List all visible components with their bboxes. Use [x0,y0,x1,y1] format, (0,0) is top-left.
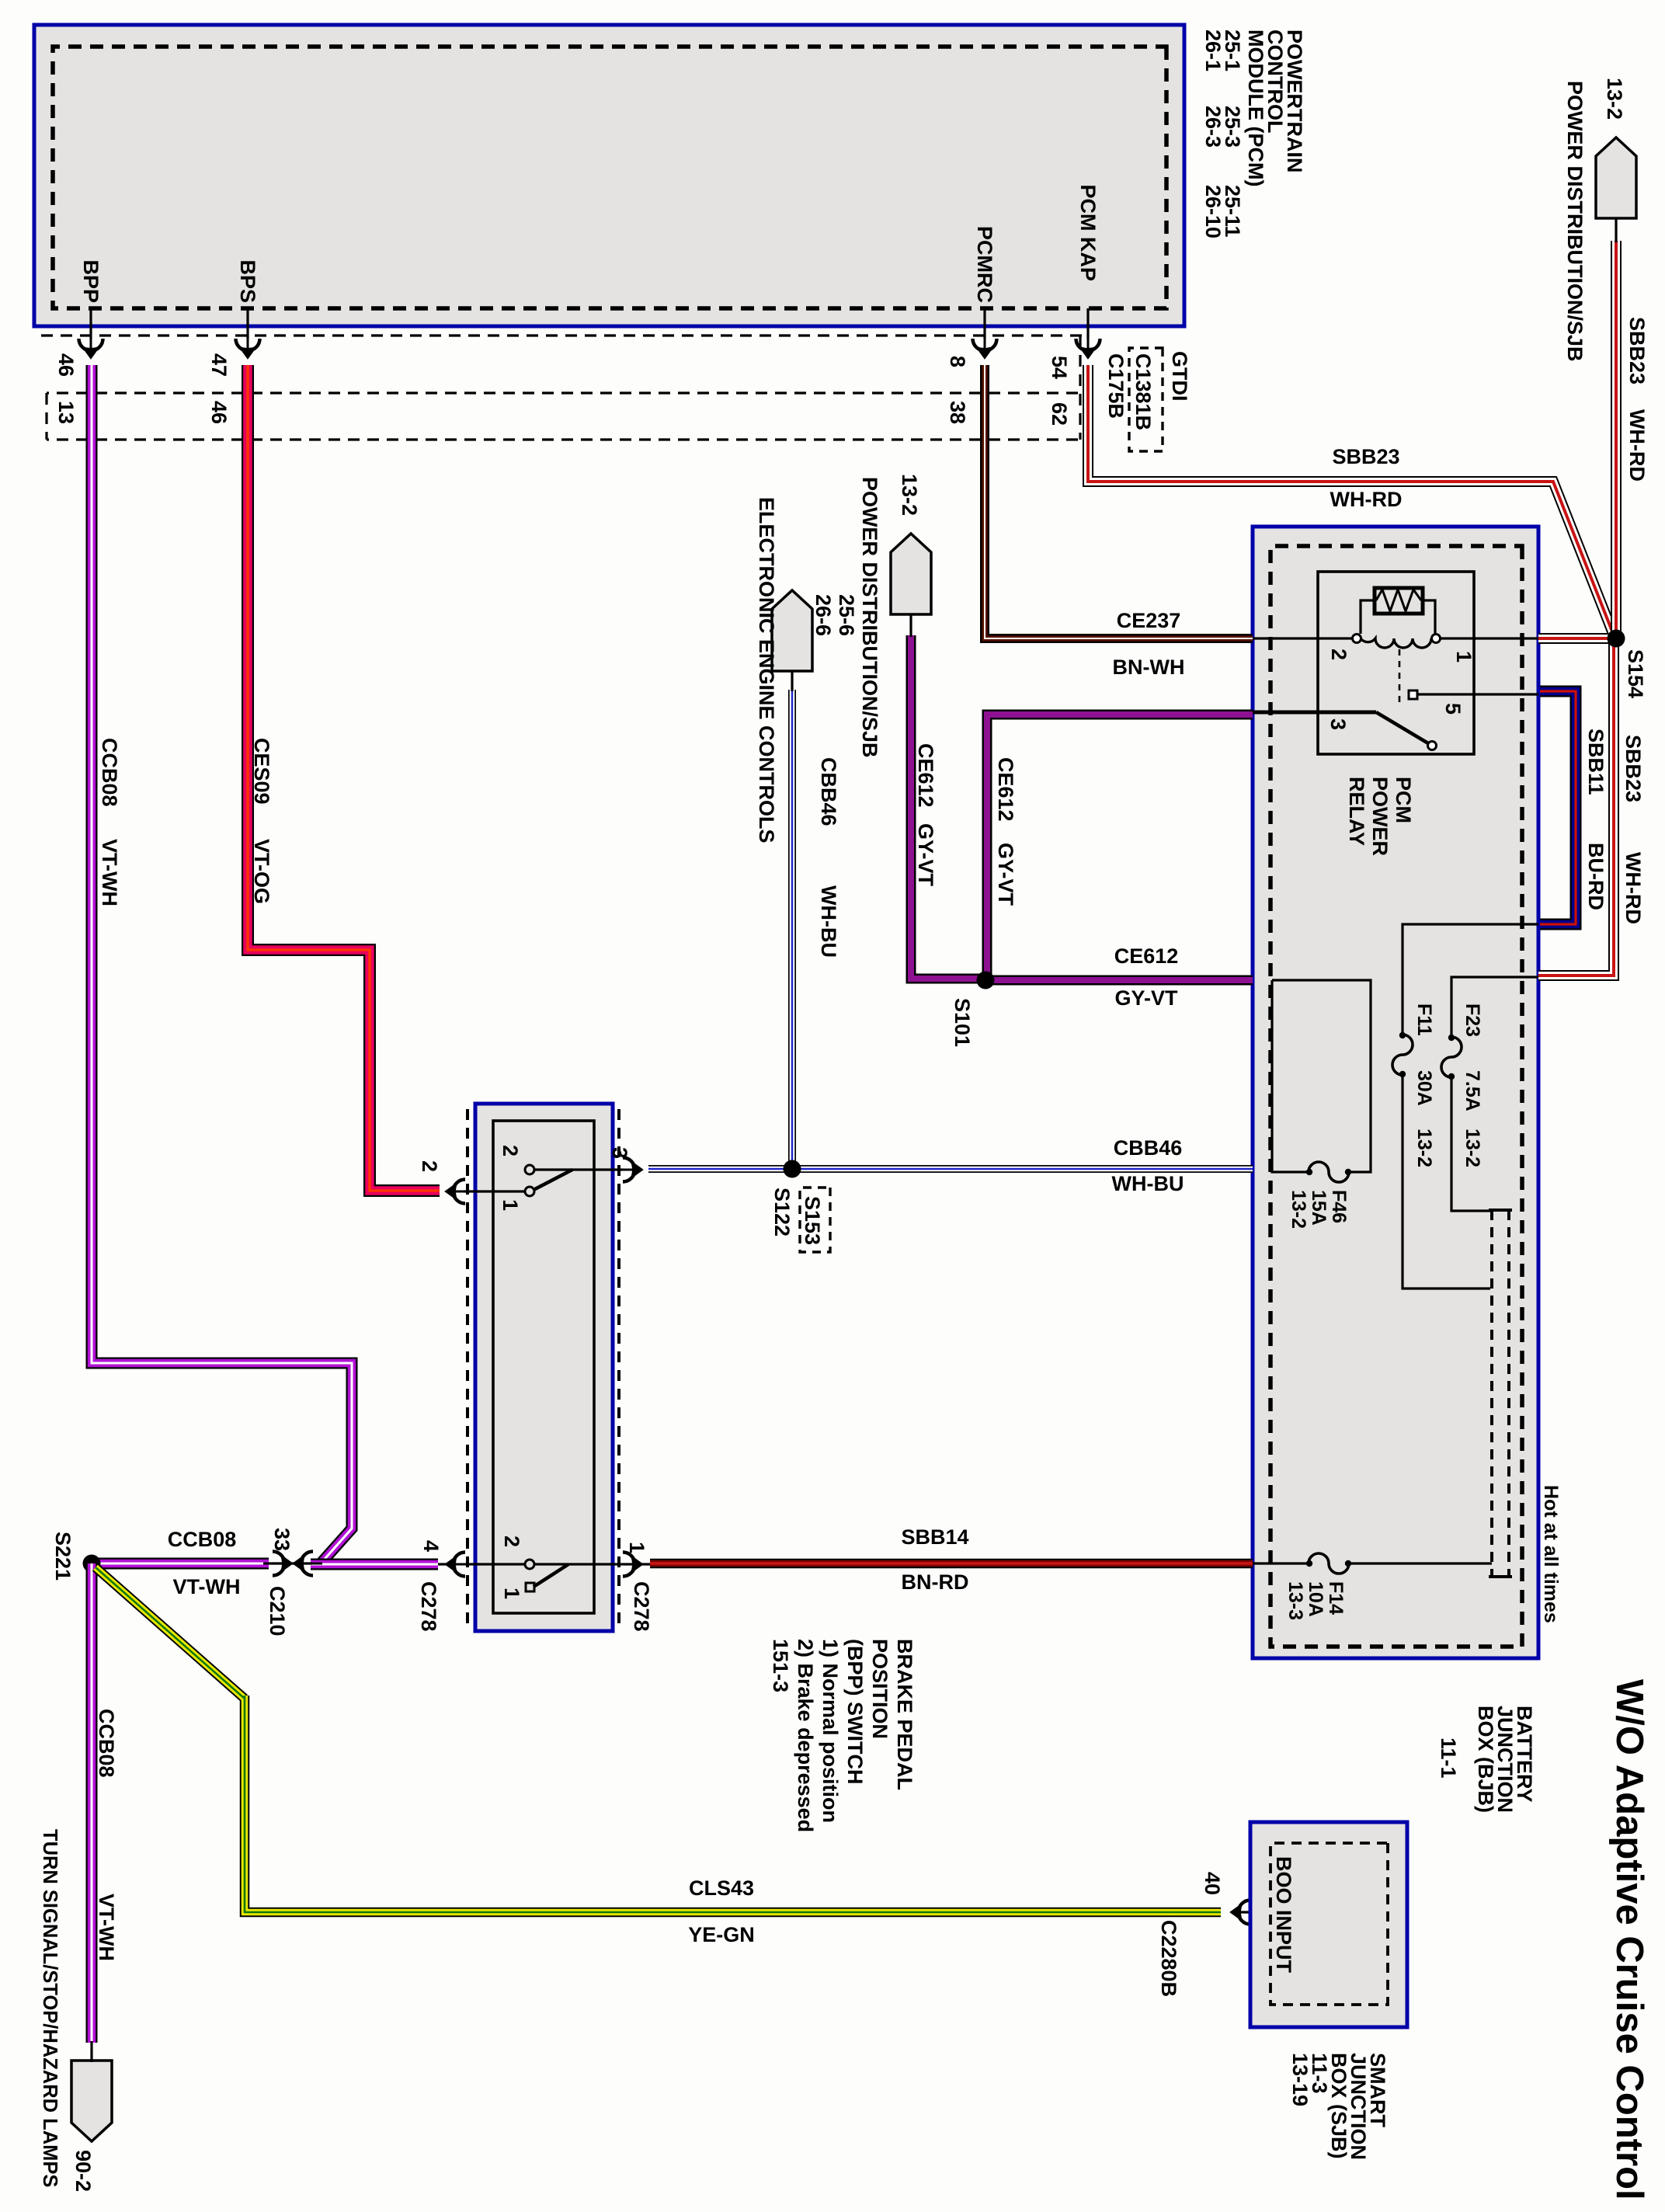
wire CCB08 pin4 segment [318,1559,438,1570]
svg-text:CE612: CE612 [914,743,937,808]
relay switch contact circle [1428,742,1437,750]
svg-text:F46: F46 [1328,1190,1350,1223]
svg-text:SBB11: SBB11 [1584,729,1608,795]
svg-text:10A: 10A [1305,1581,1326,1617]
wire CLS43 YE-GN [96,1567,1221,1912]
svg-text:47: 47 [207,353,231,377]
pin PCMRC connector arrow [973,329,997,359]
svg-text:2: 2 [1327,649,1350,660]
svg-text:BPP: BPP [79,259,103,303]
coil terminal pin 1 [1432,635,1441,643]
GTDI connector callout box [1129,348,1163,451]
svg-text:TURN SIGNAL/STOP/HAZARD LAMPS: TURN SIGNAL/STOP/HAZARD LAMPS [39,1829,61,2187]
svg-text:WH-RD: WH-RD [1625,409,1649,482]
off page arrow POWER DISTRIBUTION/SJB 2 [891,534,931,614]
C210 connector pair [269,1562,312,1564]
svg-text:13-2: 13-2 [1462,1129,1483,1167]
off page arrow ELECTRONIC ENGINE CONTROLS [772,590,812,671]
svg-text:26-3: 26-3 [1201,106,1225,148]
svg-text:90-2: 90-2 [71,2150,95,2192]
junction S221 [83,1555,101,1573]
svg-text:CCB08: CCB08 [168,1528,237,1551]
svg-text:WH-RD: WH-RD [1622,852,1645,924]
svg-text:1) Normal position: 1) Normal position [819,1639,842,1823]
right switch through line [475,1563,613,1565]
svg-text:YE-GN: YE-GN [688,1923,755,1946]
svg-text:33: 33 [270,1528,294,1551]
svg-text:15A: 15A [1308,1190,1330,1226]
svg-text:C2280B: C2280B [1157,1920,1180,1997]
resistor zigzag [1376,590,1421,611]
pin PCM KAP connector arrow [1076,329,1100,359]
svg-text:CCB08: CCB08 [95,1709,118,1778]
svg-text:ELECTRONIC ENGINE CONTROLS: ELECTRONIC ENGINE CONTROLS [755,497,778,843]
pin PCM KAP stub [1086,308,1089,339]
svg-text:CBB46: CBB46 [817,757,840,826]
svg-text:C278: C278 [417,1581,440,1632]
svg-text:(BPP) SWITCH: (BPP) SWITCH [843,1639,867,1784]
svg-text:PCMRC: PCMRC [973,226,996,303]
svg-text:W/O Adaptive Cruise Control: W/O Adaptive Cruise Control [1608,1679,1650,2200]
svg-text:F14: F14 [1325,1581,1347,1615]
svg-text:F11: F11 [1413,1003,1435,1036]
wire SBB23 from off-page arrow to S154 [1611,241,1622,638]
svg-text:SBB14: SBB14 [901,1525,968,1549]
svg-text:13-2: 13-2 [1603,78,1626,120]
PCM (Powertrain Control Module) box [34,25,1184,326]
svg-text:13: 13 [54,401,78,424]
svg-text:BRAKE PEDAL: BRAKE PEDAL [893,1639,916,1790]
svg-text:WH-BU: WH-BU [1112,1172,1184,1195]
pin 4 stub + arrow bottom right [465,1563,475,1565]
svg-text:151-3: 151-3 [769,1639,792,1692]
Smart Junction Box [1250,1822,1407,2027]
bus end caps [1489,1209,1512,1212]
pin BPS connector arrow [236,329,260,359]
svg-text:11-1: 11-1 [1437,1737,1460,1779]
svg-text:13-2: 13-2 [1413,1129,1435,1167]
wire SBB23 WH-RD from PCM KAP: riser and diagonal to S154 [1088,365,1615,976]
svg-text:46: 46 [207,401,231,424]
svg-text:PCM: PCM [1392,777,1415,823]
svg-text:BN-RD: BN-RD [902,1570,969,1594]
wire CCB08 VT-WH from BPP [92,365,352,1564]
fuse F46 15A [1306,1162,1351,1182]
pin4 stub from wire [438,1563,454,1565]
svg-text:8: 8 [946,356,969,367]
svg-text:CE237: CE237 [1117,609,1181,632]
svg-text:F23: F23 [1462,1003,1483,1037]
inner black rect [493,1121,594,1613]
svg-text:VT-WH: VT-WH [98,839,121,906]
svg-text:3: 3 [608,1147,631,1159]
left switch contact 1 [525,1187,534,1196]
relay pin2 line to CE237 entry [1253,637,1352,639]
wire stub EEC arrow [791,671,793,691]
wire CCB08 from C210 to S221 [92,1558,269,1570]
left switch line to pin2 [475,1190,525,1192]
svg-text:GY-VT: GY-VT [1114,986,1178,1010]
wire stub arrow1 [1615,218,1617,242]
svg-text:POSITION: POSITION [868,1639,892,1739]
relay switch pin3 line [1253,711,1376,715]
svg-text:3: 3 [1326,718,1350,730]
svg-text:13-19: 13-19 [1288,2053,1312,2106]
svg-text:S221: S221 [51,1532,75,1581]
svg-text:40: 40 [1201,1872,1224,1895]
off page arrow POWER DISTRIBUTION/SJB top [1596,137,1636,218]
svg-text:RELAY: RELAY [1345,777,1368,846]
svg-text:26-6: 26-6 [812,594,835,636]
svg-text:GTDI: GTDI [1168,351,1191,402]
svg-text:CE612: CE612 [1114,944,1179,968]
svg-text:CLS43: CLS43 [689,1876,754,1900]
svg-text:1: 1 [625,1542,648,1553]
relay pin5 to SBB11 line [1417,693,1538,695]
svg-text:GY-VT: GY-VT [994,843,1017,906]
pin1 stub to SBB14 [623,1563,650,1565]
wire SBB14 BN-RD [650,1559,1253,1569]
F23 out to bus [1451,1077,1490,1211]
relay pin 5 terminal [1409,690,1417,699]
pin PCMRC stub [983,308,985,339]
wire CE237 BN-WH [985,365,1253,638]
junction S101 [977,972,995,989]
svg-text:C210: C210 [266,1586,289,1636]
pin BPP stub [89,308,92,339]
svg-text:MODULE (PCM): MODULE (PCM) [1244,30,1267,186]
connector dashed band C1381B line [34,334,1082,336]
svg-text:WH-RD: WH-RD [1330,488,1403,511]
svg-text:30A: 30A [1413,1070,1435,1106]
Brake Pedal Position switch box [475,1104,613,1631]
svg-text:1: 1 [1452,651,1476,663]
left switch contact 2 [525,1165,534,1174]
svg-text:BN-WH: BN-WH [1113,656,1185,679]
svg-text:2) Brake depressed: 2) Brake depressed [794,1639,817,1832]
svg-text:46: 46 [54,353,78,377]
left switch arm [534,1170,572,1190]
junction S154 [1608,630,1625,648]
hot bus dashed pair [1507,1210,1510,1577]
SBB11 inside feed to F11 [1403,924,1538,1035]
svg-text:38: 38 [946,401,969,424]
SJB inner dashed [1270,1843,1388,2005]
wire CBB46 WH-BU vertical main [648,1165,1253,1173]
svg-text:S153: S153 [801,1196,824,1245]
svg-text:25-6: 25-6 [835,594,858,636]
svg-text:4: 4 [419,1540,443,1552]
svg-text:1: 1 [500,1588,523,1599]
svg-text:13-2: 13-2 [898,474,921,516]
off page arrow turn signal [71,2061,112,2141]
svg-text:2: 2 [418,1160,441,1172]
svg-text:BOX (BJB): BOX (BJB) [1474,1706,1497,1813]
svg-text:Hot at all times: Hot at all times [1540,1485,1562,1623]
dashed S153 box [800,1188,830,1252]
relay box [1318,572,1474,754]
SBB23 inside feed to F23 [1451,977,1538,1037]
svg-text:POWER: POWER [1368,777,1392,856]
svg-text:5: 5 [1441,703,1465,715]
coil terminal pin 2 [1353,635,1361,643]
PCM inner dashed border [53,47,1166,308]
svg-text:S101: S101 [951,998,974,1047]
svg-text:VT-OG: VT-OG [250,839,273,904]
svg-text:VT-WH: VT-WH [95,1894,118,1961]
pin 3 stub + arrow top left [613,1168,623,1170]
svg-text:13-2: 13-2 [1288,1190,1309,1229]
junction S122 [784,1160,801,1178]
svg-text:SBB23: SBB23 [1625,317,1649,384]
svg-text:62: 62 [1048,402,1071,426]
svg-text:C1381B: C1381B [1131,353,1155,430]
relay pin1 to S154 line inside BJB [1440,637,1538,639]
fuse F11 30A [1392,1032,1413,1077]
svg-text:BU-RD: BU-RD [1584,843,1608,910]
SBB14 inside feed to F14 [1253,1562,1309,1564]
svg-text:POWER DISTRIBUTION/SJB: POWER DISTRIBUTION/SJB [1563,81,1587,362]
Battery Junction Box (BJB) [1253,527,1538,1658]
wire stub turn-signal arrow [90,2041,92,2062]
svg-text:BOO INPUT: BOO INPUT [1272,1856,1295,1974]
svg-text:7.5A: 7.5A [1462,1070,1483,1111]
svg-text:PCM KAP: PCM KAP [1076,184,1100,281]
svg-text:54: 54 [1048,356,1071,379]
svg-text:2: 2 [500,1536,523,1547]
svg-text:S122: S122 [770,1188,794,1236]
svg-text:POWER DISTRIBUTION/SJB: POWER DISTRIBUTION/SJB [858,477,881,758]
svg-text:2: 2 [499,1145,522,1156]
arrow to SJB pin 40 [1230,1901,1260,1925]
resistor connect wires [1361,600,1435,634]
fuse F23 7.5A [1441,1035,1462,1080]
F46 rect bus loop [1272,980,1371,1172]
svg-text:CE612: CE612 [994,757,1017,822]
svg-text:GY-VT: GY-VT [914,823,937,887]
svg-text:CBB46: CBB46 [1114,1136,1183,1160]
pin BPS stub [246,308,249,339]
F14 out to bus [1349,1562,1492,1564]
pin 2 stub + arrow bottom left [464,1190,475,1192]
svg-text:26-10: 26-10 [1201,185,1225,238]
relay coil [1361,638,1431,648]
svg-text:VT-WH: VT-WH [173,1575,241,1598]
svg-text:SBB23: SBB23 [1332,445,1399,468]
svg-text:S154: S154 [1624,649,1647,698]
relay resistor box [1375,588,1423,614]
svg-text:CCB08: CCB08 [98,738,121,807]
wire CCB08 from S221 to turn signal arrow [86,1563,98,2043]
pin 1 stub + arrow top right [613,1563,623,1565]
svg-text:BPS: BPS [236,259,259,303]
BJB inner dashed border [1270,546,1522,1647]
relay switch arm [1376,712,1428,743]
right switch arm [534,1564,568,1587]
right switch square contact 1 [526,1583,534,1591]
pin BPP connector arrow [79,329,103,359]
svg-text:CES09: CES09 [250,738,273,805]
left switch line to pin3 [534,1168,613,1170]
wire CE612 GY-VT from arrow2 to S101 [911,635,1253,980]
svg-text:1: 1 [499,1199,522,1211]
wire SBB11 BU-RD loop [1540,691,1576,924]
svg-text:13-3: 13-3 [1284,1581,1306,1620]
svg-text:26-1: 26-1 [1201,30,1225,71]
svg-text:C278: C278 [630,1581,653,1632]
svg-text:WH-BU: WH-BU [817,885,840,958]
svg-text:SBB23: SBB23 [1622,735,1645,802]
wire stub arrow2 [909,614,912,637]
C278 dashed line top [617,1109,620,1623]
C278 dashed line bottom [466,1109,469,1623]
wire CBB46 EEC branch [788,690,796,1169]
relay actuator dashed link [1399,649,1401,707]
fuse F14 10A [1306,1553,1351,1574]
wire CES09 VT-OG [248,365,440,1191]
F11 out to bus [1403,1075,1490,1289]
svg-text:C175B: C175B [1104,353,1128,419]
right switch contact 2 [525,1560,534,1569]
connector dashed band C175B [47,391,1078,394]
